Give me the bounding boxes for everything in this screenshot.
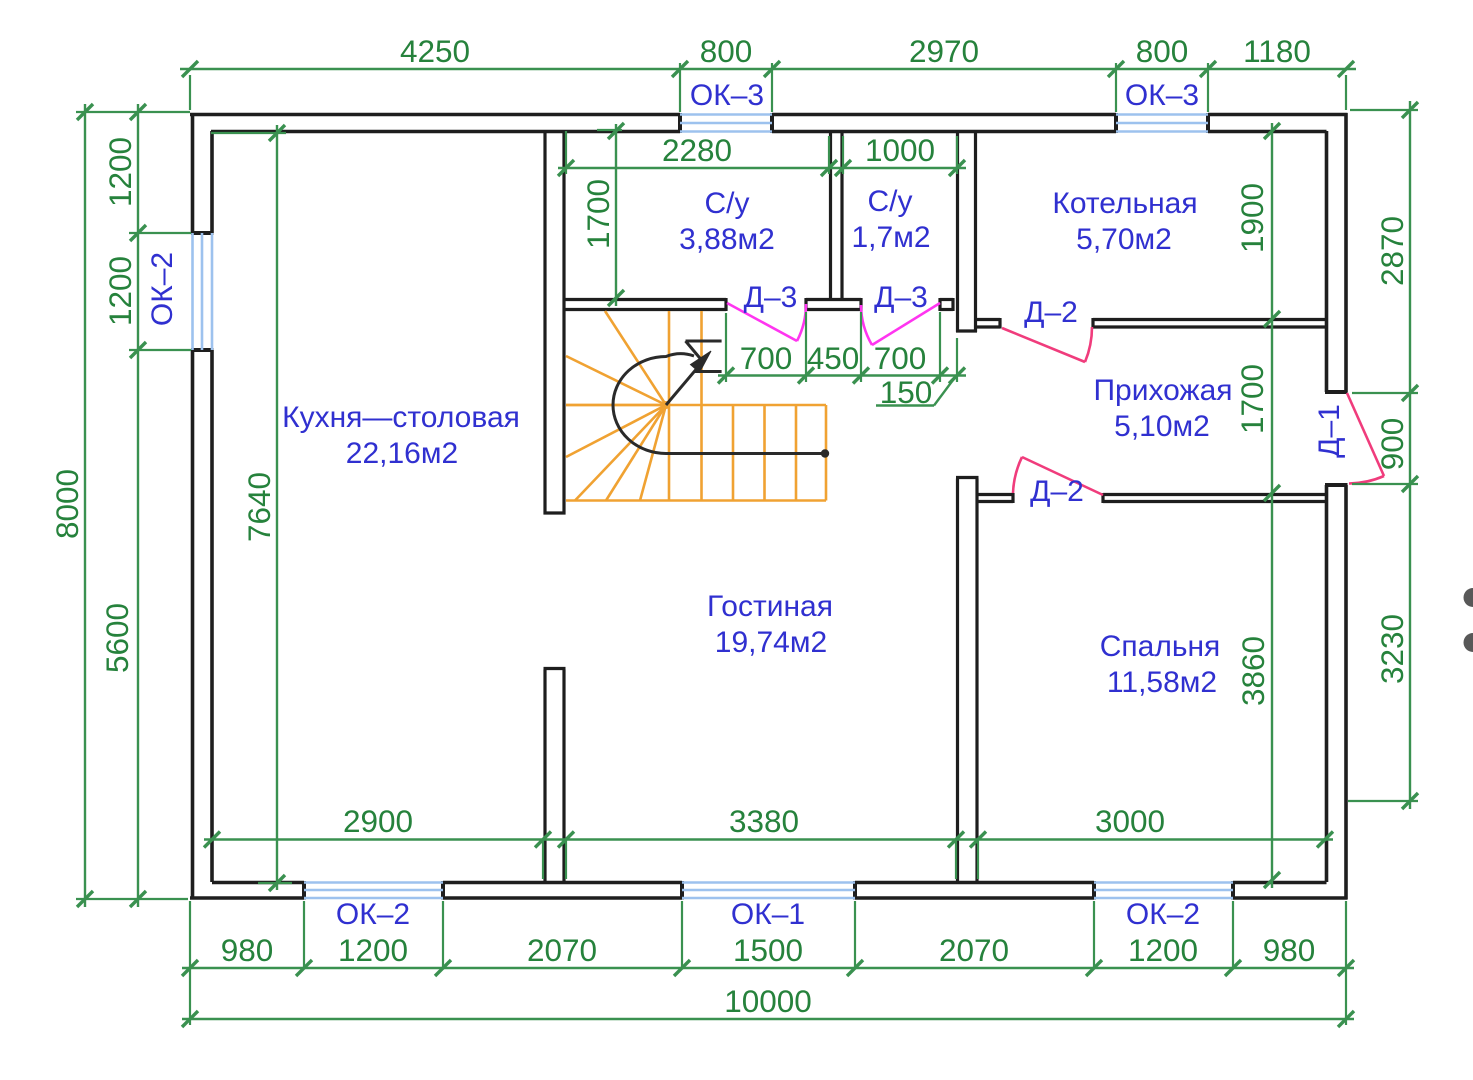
svg-text:ОК–2: ОК–2 [1126, 898, 1200, 931]
svg-text:С/у: С/у [868, 185, 913, 218]
svg-text:3,88м2: 3,88м2 [679, 223, 775, 256]
svg-text:2870: 2870 [1374, 216, 1410, 286]
svg-text:22,16м2: 22,16м2 [346, 437, 458, 470]
svg-text:450: 450 [807, 340, 860, 376]
svg-text:1180: 1180 [1243, 33, 1311, 69]
svg-text:2900: 2900 [343, 803, 413, 839]
svg-text:1900: 1900 [1234, 183, 1270, 253]
svg-text:5,10м2: 5,10м2 [1114, 410, 1210, 443]
svg-text:3860: 3860 [1235, 636, 1271, 706]
svg-text:ОК–1: ОК–1 [731, 898, 805, 931]
svg-text:2070: 2070 [939, 932, 1009, 968]
svg-text:1000: 1000 [865, 132, 935, 168]
svg-text:1,7м2: 1,7м2 [851, 221, 930, 254]
svg-text:19,74м2: 19,74м2 [715, 626, 827, 659]
svg-text:700: 700 [874, 340, 927, 376]
svg-text:980: 980 [221, 932, 274, 968]
svg-text:980: 980 [1263, 932, 1316, 968]
svg-text:Котельная: Котельная [1052, 187, 1197, 220]
svg-text:4250: 4250 [400, 33, 470, 69]
svg-text:2070: 2070 [527, 932, 597, 968]
svg-text:Прихожая: Прихожая [1093, 374, 1232, 407]
svg-text:Спальня: Спальня [1100, 630, 1221, 663]
svg-text:Д–2: Д–2 [1030, 475, 1084, 508]
svg-text:1500: 1500 [733, 932, 803, 968]
svg-text:ОК–3: ОК–3 [1125, 79, 1199, 112]
svg-text:800: 800 [700, 33, 753, 69]
svg-text:7640: 7640 [241, 472, 277, 542]
svg-text:Д–1: Д–1 [1313, 404, 1346, 458]
svg-text:1200: 1200 [1128, 932, 1198, 968]
svg-text:8000: 8000 [49, 469, 85, 539]
svg-text:2280: 2280 [662, 132, 732, 168]
svg-text:900: 900 [1374, 418, 1410, 471]
svg-text:Кухня—столовая: Кухня—столовая [282, 401, 520, 434]
svg-text:Д–2: Д–2 [1024, 296, 1078, 329]
svg-text:2970: 2970 [909, 33, 979, 69]
svg-text:800: 800 [1136, 33, 1189, 69]
svg-text:3380: 3380 [729, 803, 799, 839]
svg-text:1200: 1200 [338, 932, 408, 968]
svg-text:1200: 1200 [102, 137, 138, 207]
svg-text:700: 700 [740, 340, 793, 376]
svg-text:1700: 1700 [1234, 364, 1270, 434]
svg-text:Д–3: Д–3 [874, 281, 928, 314]
svg-text:С/у: С/у [705, 187, 750, 220]
svg-text:Гостиная: Гостиная [707, 590, 833, 623]
svg-text:3000: 3000 [1095, 803, 1165, 839]
svg-text:3230: 3230 [1374, 614, 1410, 684]
svg-text:ОК–2: ОК–2 [336, 898, 410, 931]
svg-text:10000: 10000 [724, 983, 812, 1019]
svg-text:11,58м2: 11,58м2 [1107, 666, 1217, 699]
svg-text:1700: 1700 [580, 179, 616, 249]
svg-text:Д–3: Д–3 [744, 281, 798, 314]
svg-text:5600: 5600 [99, 603, 135, 673]
svg-text:5,70м2: 5,70м2 [1076, 223, 1172, 256]
svg-text:ОК–3: ОК–3 [690, 79, 764, 112]
svg-text:1200: 1200 [102, 256, 138, 326]
svg-text:ОК–2: ОК–2 [146, 252, 179, 326]
